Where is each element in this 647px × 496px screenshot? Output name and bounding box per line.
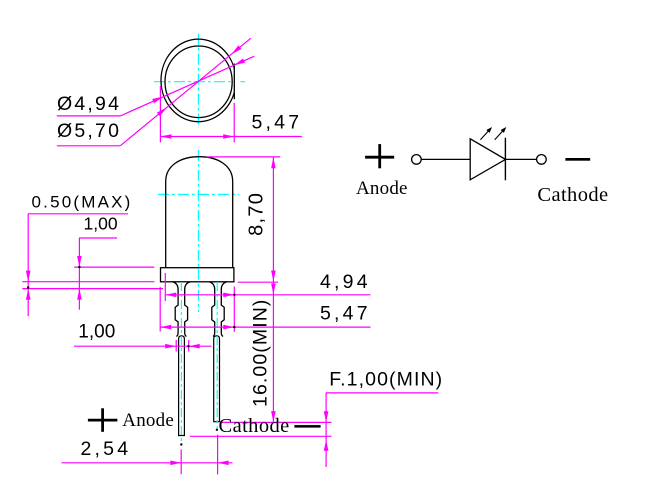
svg-text:1,00: 1,00 [84,214,118,234]
svg-text:Cathode: Cathode [219,415,290,437]
svg-text:5,47: 5,47 [320,302,371,324]
svg-text:Ø5,70: Ø5,70 [57,120,121,142]
svg-text:0.50(MAX): 0.50(MAX) [32,193,133,212]
svg-text:8,70: 8,70 [246,192,268,236]
svg-text:Anode: Anode [356,178,408,199]
svg-text:F.1,00(MIN): F.1,00(MIN) [329,368,443,390]
svg-text:Anode: Anode [122,410,174,431]
svg-text:16.00(MIN): 16.00(MIN) [250,298,272,407]
svg-text:4,94: 4,94 [320,271,371,293]
svg-text:Cathode: Cathode [537,184,608,206]
svg-text:1,00: 1,00 [78,322,115,343]
svg-text:5,47: 5,47 [252,111,303,133]
svg-text:2,54: 2,54 [81,438,132,460]
svg-text:Ø4,94: Ø4,94 [57,93,121,115]
